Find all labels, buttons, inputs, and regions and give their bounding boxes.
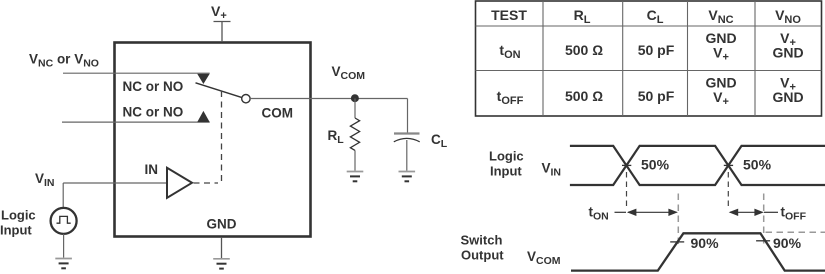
svg-text:RL: RL: [574, 7, 591, 26]
svg-text:tOFF: tOFF: [497, 88, 524, 107]
svg-text:50 pF: 50 pF: [638, 42, 675, 58]
svg-text:Logic: Logic: [1, 208, 36, 223]
svg-text:90%: 90%: [691, 235, 720, 251]
svg-text:VNO: VNO: [775, 7, 801, 26]
svg-text:VNC: VNC: [708, 7, 733, 26]
svg-text:Input: Input: [490, 164, 522, 179]
svg-text:50%: 50%: [743, 157, 772, 173]
svg-text:500 Ω: 500 Ω: [565, 42, 603, 58]
svg-text:tON: tON: [589, 205, 609, 223]
svg-text:RL: RL: [328, 128, 345, 146]
svg-text:tOFF: tOFF: [781, 205, 807, 223]
svg-text:V+: V+: [713, 89, 729, 108]
svg-text:IN: IN: [145, 162, 159, 177]
svg-text:50%: 50%: [641, 157, 670, 173]
svg-text:VCOM: VCOM: [332, 64, 366, 82]
svg-text:tON: tON: [499, 42, 520, 61]
svg-text:CL: CL: [431, 132, 448, 150]
svg-text:CL: CL: [647, 7, 664, 26]
svg-text:50 pF: 50 pF: [638, 88, 675, 104]
svg-text:GND: GND: [772, 45, 803, 61]
svg-text:V+: V+: [713, 45, 729, 64]
svg-text:VIN: VIN: [542, 161, 562, 179]
svg-text:500 Ω: 500 Ω: [565, 88, 603, 104]
svg-text:VIN: VIN: [35, 171, 55, 189]
svg-text:VCOM: VCOM: [527, 249, 561, 267]
svg-text:V+: V+: [211, 3, 227, 22]
svg-text:TEST: TEST: [491, 7, 527, 23]
svg-text:GND: GND: [772, 89, 803, 105]
svg-text:VNC or VNO: VNC or VNO: [29, 52, 99, 70]
svg-text:COM: COM: [262, 106, 294, 121]
svg-text:Logic: Logic: [489, 149, 524, 164]
svg-text:GND: GND: [207, 217, 237, 232]
svg-text:Input: Input: [0, 223, 32, 238]
svg-text:NC or NO: NC or NO: [123, 105, 184, 120]
svg-text:Switch: Switch: [461, 233, 503, 248]
svg-text:90%: 90%: [773, 235, 802, 251]
svg-text:NC or NO: NC or NO: [123, 79, 184, 94]
svg-text:Output: Output: [461, 248, 504, 263]
